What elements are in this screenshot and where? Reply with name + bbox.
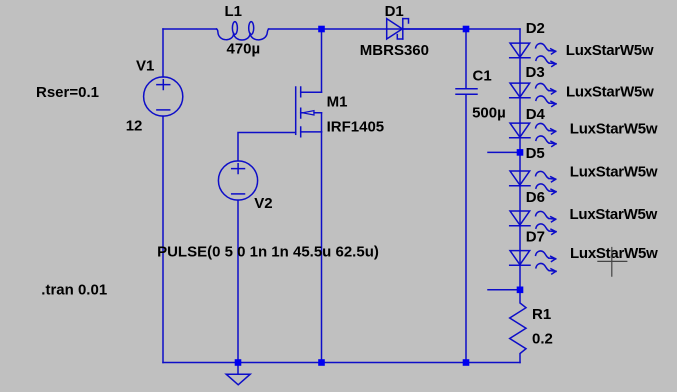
wire L1 to junction A [269, 28, 322, 30]
svg-text:M1: M1 [327, 93, 348, 110]
wire stub left of node R1 top [488, 289, 520, 291]
wire V2 top to gate [238, 133, 296, 161]
LED D4 [510, 123, 556, 146]
diode D1 [387, 19, 409, 39]
node junction R1 top [517, 287, 524, 294]
node junction A top of M1 drain [318, 26, 325, 33]
transistor M1 [296, 87, 322, 137]
wire M1 drain up [321, 29, 323, 92]
LED D6 [510, 211, 556, 234]
svg-text:D7: D7 [526, 228, 545, 245]
wire M1 source down [321, 132, 323, 363]
svg-text:D3: D3 [526, 64, 545, 81]
svg-text:V2: V2 [254, 195, 272, 212]
svg-text:MBRS360: MBRS360 [360, 42, 429, 59]
svg-text:LuxStarW5w: LuxStarW5w [566, 84, 654, 101]
svg-text:12: 12 [126, 117, 143, 134]
LED D5 [510, 171, 556, 194]
svg-text:C1: C1 [473, 67, 492, 84]
svg-text:LuxStarW5w: LuxStarW5w [570, 206, 658, 223]
crosshair cursor [597, 247, 627, 277]
voltage source V1 [144, 77, 183, 116]
svg-text:D6: D6 [526, 189, 545, 206]
svg-text:500µ: 500µ [472, 105, 506, 122]
wire V2 bottom [237, 200, 239, 362]
wire top-left vertical to V1 [162, 29, 164, 77]
wire junction A to D1 [322, 28, 467, 30]
wire C1 bottom [465, 94, 467, 362]
LED D2 [510, 43, 556, 66]
node junction B top of C1 [463, 26, 470, 33]
svg-text:0.2: 0.2 [532, 330, 553, 347]
svg-text:R1: R1 [532, 306, 551, 323]
wire bottom rail [163, 362, 520, 364]
LED D3 [510, 83, 556, 106]
svg-text:IRF1405: IRF1405 [327, 119, 385, 136]
resistor R1 [510, 290, 526, 363]
svg-text:470µ: 470µ [227, 41, 261, 58]
svg-text:Rser=0.1: Rser=0.1 [36, 84, 99, 101]
svg-text:L1: L1 [225, 3, 243, 20]
svg-text:PULSE(0 5 0 1n 1n 45.5u 62.5u): PULSE(0 5 0 1n 1n 45.5u 62.5u) [157, 243, 379, 260]
wire top horizontal V1 to L1 [163, 28, 217, 30]
wire stub left of node D5 [488, 151, 520, 153]
wire LED chain vertical [519, 29, 521, 290]
svg-text:D2: D2 [526, 20, 545, 37]
node junction C1 bottom [463, 359, 470, 366]
inductor L1 [217, 22, 269, 40]
LED D7 [510, 251, 556, 274]
svg-text:D4: D4 [526, 106, 546, 123]
wire D1 to junction B [404, 28, 466, 30]
ground [226, 363, 250, 385]
wire C1 top [465, 29, 467, 89]
node junction M1 source bottom [318, 359, 325, 366]
svg-text:LuxStarW5w: LuxStarW5w [566, 42, 654, 59]
voltage source V2 [218, 161, 257, 200]
node junction D5 [517, 149, 524, 156]
node junction ground [235, 359, 242, 366]
capacitor C1 [456, 89, 477, 95]
svg-text:LuxStarW5w: LuxStarW5w [570, 245, 658, 262]
svg-text:V1: V1 [136, 57, 154, 74]
svg-text:.tran 0.01: .tran 0.01 [41, 282, 107, 299]
wire junction B to LED chain corner [466, 28, 520, 30]
svg-text:LuxStarW5w: LuxStarW5w [570, 164, 658, 181]
wire V1 bottom [162, 116, 164, 362]
svg-text:LuxStarW5w: LuxStarW5w [570, 121, 658, 138]
svg-text:D1: D1 [385, 3, 404, 20]
svg-text:D5: D5 [526, 145, 545, 162]
